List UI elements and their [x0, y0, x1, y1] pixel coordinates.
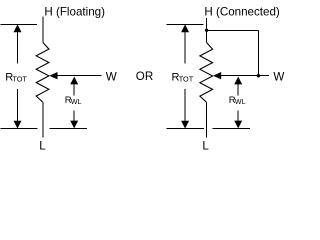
wire H branch horizontal to right side	[207, 29, 259, 31]
RTOT top reference line, right	[167, 24, 204, 26]
junction dot at H branch, right	[205, 29, 208, 32]
bottom reference line left of wire, right potentiometer	[167, 128, 204, 130]
RTOT top reference line, left	[1, 24, 38, 26]
svg-text:WL: WL	[235, 97, 246, 106]
wire right side vertical down to wiper	[257, 30, 259, 75]
RTOT dimension arrow up, left	[14, 24, 22, 32]
svg-text:WL: WL	[71, 97, 82, 106]
svg-text:H (Floating): H (Floating)	[44, 5, 105, 18]
wire H to resistor top, right	[206, 18, 208, 43]
svg-text:L: L	[202, 140, 209, 153]
RWL dimension arrow down, left	[73, 111, 75, 123]
bottom reference line right of wire, right potentiometer	[212, 128, 250, 130]
bottom reference line right of wire, left potentiometer	[49, 128, 87, 130]
svg-text:OR: OR	[136, 70, 153, 83]
wiper arrow W, right potentiometer	[213, 72, 221, 79]
svg-text:W: W	[106, 71, 117, 84]
svg-text:L: L	[39, 140, 46, 153]
RWL dimension arrow down, right	[237, 111, 239, 123]
bottom reference line left of wire, left potentiometer	[1, 128, 38, 130]
RTOT dimension arrow down, left	[17, 89, 19, 123]
wire H to resistor top, left	[42, 17, 44, 43]
svg-text:TOT: TOT	[12, 74, 27, 83]
junction dot wiper to H wire, right	[257, 74, 260, 77]
RTOT dimension arrow up, right	[181, 24, 189, 32]
svg-text:TOT: TOT	[179, 74, 194, 83]
wire resistor bottom to L, right	[206, 102, 208, 137]
wire resistor bottom to L, left	[42, 102, 44, 137]
wiper arrow W, left potentiometer	[49, 72, 57, 79]
RWL dimension arrow up, left	[70, 77, 78, 85]
svg-text:H (Connected): H (Connected)	[204, 6, 280, 19]
resistor RTOT zigzag, left potentiometer	[36, 43, 49, 103]
svg-text:W: W	[273, 71, 284, 84]
resistor RTOT zigzag, right potentiometer	[200, 43, 213, 103]
RWL dimension arrow up, right	[234, 77, 242, 85]
RTOT dimension arrow down, right	[184, 89, 186, 123]
